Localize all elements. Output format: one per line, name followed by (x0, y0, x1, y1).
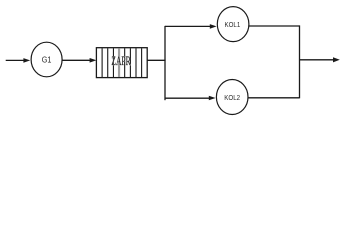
wire output arrow (300, 57, 340, 62)
node split line (164, 26, 166, 100)
block ZAPR (96, 48, 147, 78)
wire input arrow (6, 58, 31, 63)
wire G1 to ZAPR arrow (62, 58, 96, 63)
node join line (299, 25, 301, 98)
svg-text:ZAPR: ZAPR (111, 55, 130, 68)
wire KOL1 to join (249, 25, 300, 27)
circle KOL1 (217, 7, 249, 42)
wire ZAPR to split (147, 59, 165, 61)
svg-text:G1: G1 (42, 55, 52, 65)
wire KOL2 to join (248, 97, 300, 99)
svg-text:KOL1: KOL1 (224, 22, 240, 30)
wire split to KOL1 arrow (165, 24, 217, 29)
circle KOL2 (216, 80, 248, 115)
wire split to KOL2 arrow (165, 96, 216, 101)
generator G1 (31, 42, 62, 77)
svg-text:KOL2: KOL2 (224, 95, 240, 103)
